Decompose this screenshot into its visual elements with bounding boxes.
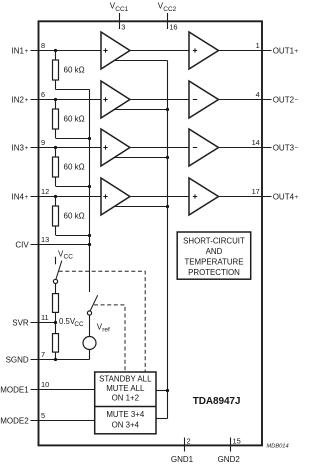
svg-text:CC: CC [64,254,74,261]
VCC1 pin stub (pin 3) [119,13,121,29]
svg-text:TEMPERATURE: TEMPERATURE [184,257,243,266]
svg-text:+: + [25,145,29,152]
node A3 tap/bus junction [166,156,169,159]
svg-text:IN3: IN3 [12,143,25,152]
svg-text:IN1: IN1 [12,46,25,55]
svg-text:SGND: SGND [6,355,29,364]
op-amp A4 input stage [101,178,130,215]
svg-text:CC: CC [74,321,84,328]
svg-text:2: 2 [187,437,191,446]
dashed control wire from S1 [59,271,146,372]
node R3/bus junction [88,185,91,188]
GND1 pin stub (pin 2) [184,438,186,452]
resistor R3 60 kOhm [53,148,59,187]
wire A3 to B3 [130,147,189,149]
node SVR junction [54,321,57,324]
short-circuit protection box [177,232,251,279]
IN4+ wire [31,196,102,198]
svg-text:4: 4 [256,90,260,99]
svg-text:GND2: GND2 [218,455,241,464]
mute box text [106,410,145,429]
svg-text:12: 12 [41,187,49,196]
op-amp B1 output stage [189,32,219,69]
op-amp A3 input stage [101,129,130,166]
A3 feedback tap wire [114,157,167,159]
svg-text:13: 13 [41,235,49,244]
svg-text:3: 3 [121,23,125,32]
svg-text:PROTECTION: PROTECTION [188,268,240,277]
node A2 tap/bus junction [166,108,169,111]
svg-text:ON 1+2: ON 1+2 [112,393,139,402]
OUT3− wire [219,147,272,149]
svg-text:1: 1 [256,41,260,50]
svg-text:TDA8947J: TDA8947J [193,396,241,407]
svg-text:+: + [294,194,298,201]
node A4 tap/bus junction [166,205,169,208]
svg-text:CC2: CC2 [163,6,176,13]
wire A4 to B4 [130,196,189,198]
svg-text:AND: AND [206,247,223,256]
wire A1 to B1 [130,50,189,52]
VCC2 pin stub (pin 16) [167,13,169,29]
A4 feedback tap wire [114,206,167,208]
IN3+ wire [31,147,102,149]
VCC2 label [158,2,177,13]
node IN2/R2 junction [54,98,57,101]
op-amp A2 input stage [101,81,130,118]
IN1+ wire [31,50,102,52]
svg-text:15: 15 [233,437,241,446]
wire mute box to control bus [156,418,168,420]
MODE1 wire [31,389,95,391]
A3 plus sign [103,145,107,149]
svg-text:10: 10 [41,380,49,389]
IC outline box [39,21,263,445]
wire R3 to bias bus [56,186,90,188]
resistor R6 [53,334,59,353]
node IN4/R4 junction [54,195,57,198]
node CIV/bus junction [88,243,91,246]
svg-text:OUT2: OUT2 [273,95,295,104]
svg-text:MUTE ALL: MUTE ALL [106,384,145,393]
wire A2 to B2 [130,99,189,101]
A2 feedback tap wire [114,109,167,111]
svg-text:CIV: CIV [15,240,29,249]
svg-text:CC1: CC1 [115,6,128,13]
wire S2 to Vref [89,315,91,336]
mode box divider [95,406,156,408]
control bus vertical wire [167,61,169,419]
op-amp B3 output stage [189,129,219,166]
node IN3/R3 junction [54,146,57,149]
node R2/bus junction [88,137,91,140]
A1 feedback tap wire [114,60,167,62]
bias bus vertical wire [89,90,91,293]
OUT4+ label [273,192,299,201]
node IN1/R1 junction [54,49,57,52]
svg-text:11: 11 [41,313,49,322]
wire Vref to SGND [89,350,91,360]
standby box text [99,375,152,403]
svg-text:SHORT-CIRCUIT: SHORT-CIRCUIT [183,236,245,245]
svg-text:17: 17 [252,187,260,196]
svg-text:−: − [294,145,298,152]
B3 minus sign [193,147,197,149]
wire R2 to bias bus [56,138,90,140]
svg-text:9: 9 [41,138,45,147]
svg-text:+: + [25,48,29,55]
Vref label [97,322,110,333]
svg-text:OUT1: OUT1 [273,46,295,55]
op-amp B4 output stage [189,178,219,215]
node control bus junction [166,389,169,392]
svg-text:IN4: IN4 [12,192,25,201]
A4 plus sign [103,194,107,198]
SGND wire [31,359,90,361]
OUT1+ label [273,46,299,55]
OUT2− label [273,95,299,104]
switch S2 (mute) [87,295,97,315]
op-amp B2 output stage [189,81,219,118]
svg-text:STANDBY ALL: STANDBY ALL [99,375,152,384]
svg-text:OUT4: OUT4 [273,192,295,201]
A2 plus sign [103,97,107,101]
node R4/bus junction [88,234,91,237]
svg-text:60 kΩ: 60 kΩ [64,163,85,172]
svg-text:6: 6 [41,90,45,99]
svg-text:+: + [25,97,29,104]
svg-text:16: 16 [169,23,177,32]
wire R4 to bias bus [56,235,90,237]
svg-text:ON 3+4: ON 3+4 [112,420,140,429]
op-amp A1 input stage [101,32,130,69]
VCC1 label [110,2,129,13]
svg-text:ref: ref [102,326,110,333]
VCC stub wire [55,257,57,265]
switch S1 (standby) [53,261,61,284]
svg-text:OUT3: OUT3 [273,143,295,152]
GND2 pin stub (pin 15) [230,438,232,452]
IN2+ label [12,95,29,104]
resistor R4 60 kOhm [53,197,59,236]
OUT2− wire [219,99,272,101]
IN4+ label [12,192,29,201]
IN1+ label [12,46,29,55]
B1 plus sign [193,48,197,52]
svg-text:60 kΩ: 60 kΩ [64,115,85,124]
svg-text:8: 8 [41,41,45,50]
svg-text:14: 14 [252,138,260,147]
svg-text:5: 5 [41,411,45,420]
svg-text:0.5V: 0.5V [59,317,76,326]
OUT3− label [273,143,299,152]
svg-text:MDB014: MDB014 [267,443,289,449]
SVR wire [31,322,56,324]
0.5VCC label [59,317,84,328]
svg-text:MODE1: MODE1 [0,385,29,394]
wire R5 to SVR node [55,312,57,333]
svg-text:MUTE 3+4: MUTE 3+4 [106,410,145,419]
IN2+ wire [31,99,102,101]
svg-text:GND1: GND1 [171,455,194,464]
svg-text:−: − [294,97,298,104]
B4 plus sign [193,194,197,198]
resistor R5 [53,294,59,313]
MODE2 wire [31,420,95,422]
VCC symbol at standby switch [58,249,73,260]
resistor R1 60 kOhm [53,51,59,90]
protection box text [183,236,245,277]
svg-text:IN2: IN2 [12,95,25,104]
svg-text:60 kΩ: 60 kΩ [64,66,85,75]
svg-text:MODE2: MODE2 [0,416,29,425]
resistor R2 60 kOhm [53,100,59,139]
OUT4+ wire [219,196,272,198]
CIV wire [31,244,90,246]
wire R1 to bias bus [56,89,90,91]
dashed control wire from S2 [94,305,125,372]
mode control box [95,372,156,434]
svg-text:SVR: SVR [12,318,29,327]
wire S1 to R5 [55,284,57,294]
IN3+ label [12,143,29,152]
svg-text:+: + [25,194,29,201]
B2 minus sign [193,99,197,101]
wire standby box to control bus [156,390,168,392]
A1 plus sign [103,48,107,52]
wire R6 to SGND [55,352,57,359]
node SGND junction [54,358,57,361]
voltage source Vref [83,337,96,350]
svg-text:+: + [294,48,298,55]
svg-text:7: 7 [41,350,45,359]
OUT1+ wire [219,50,272,52]
svg-text:60 kΩ: 60 kΩ [64,212,85,221]
